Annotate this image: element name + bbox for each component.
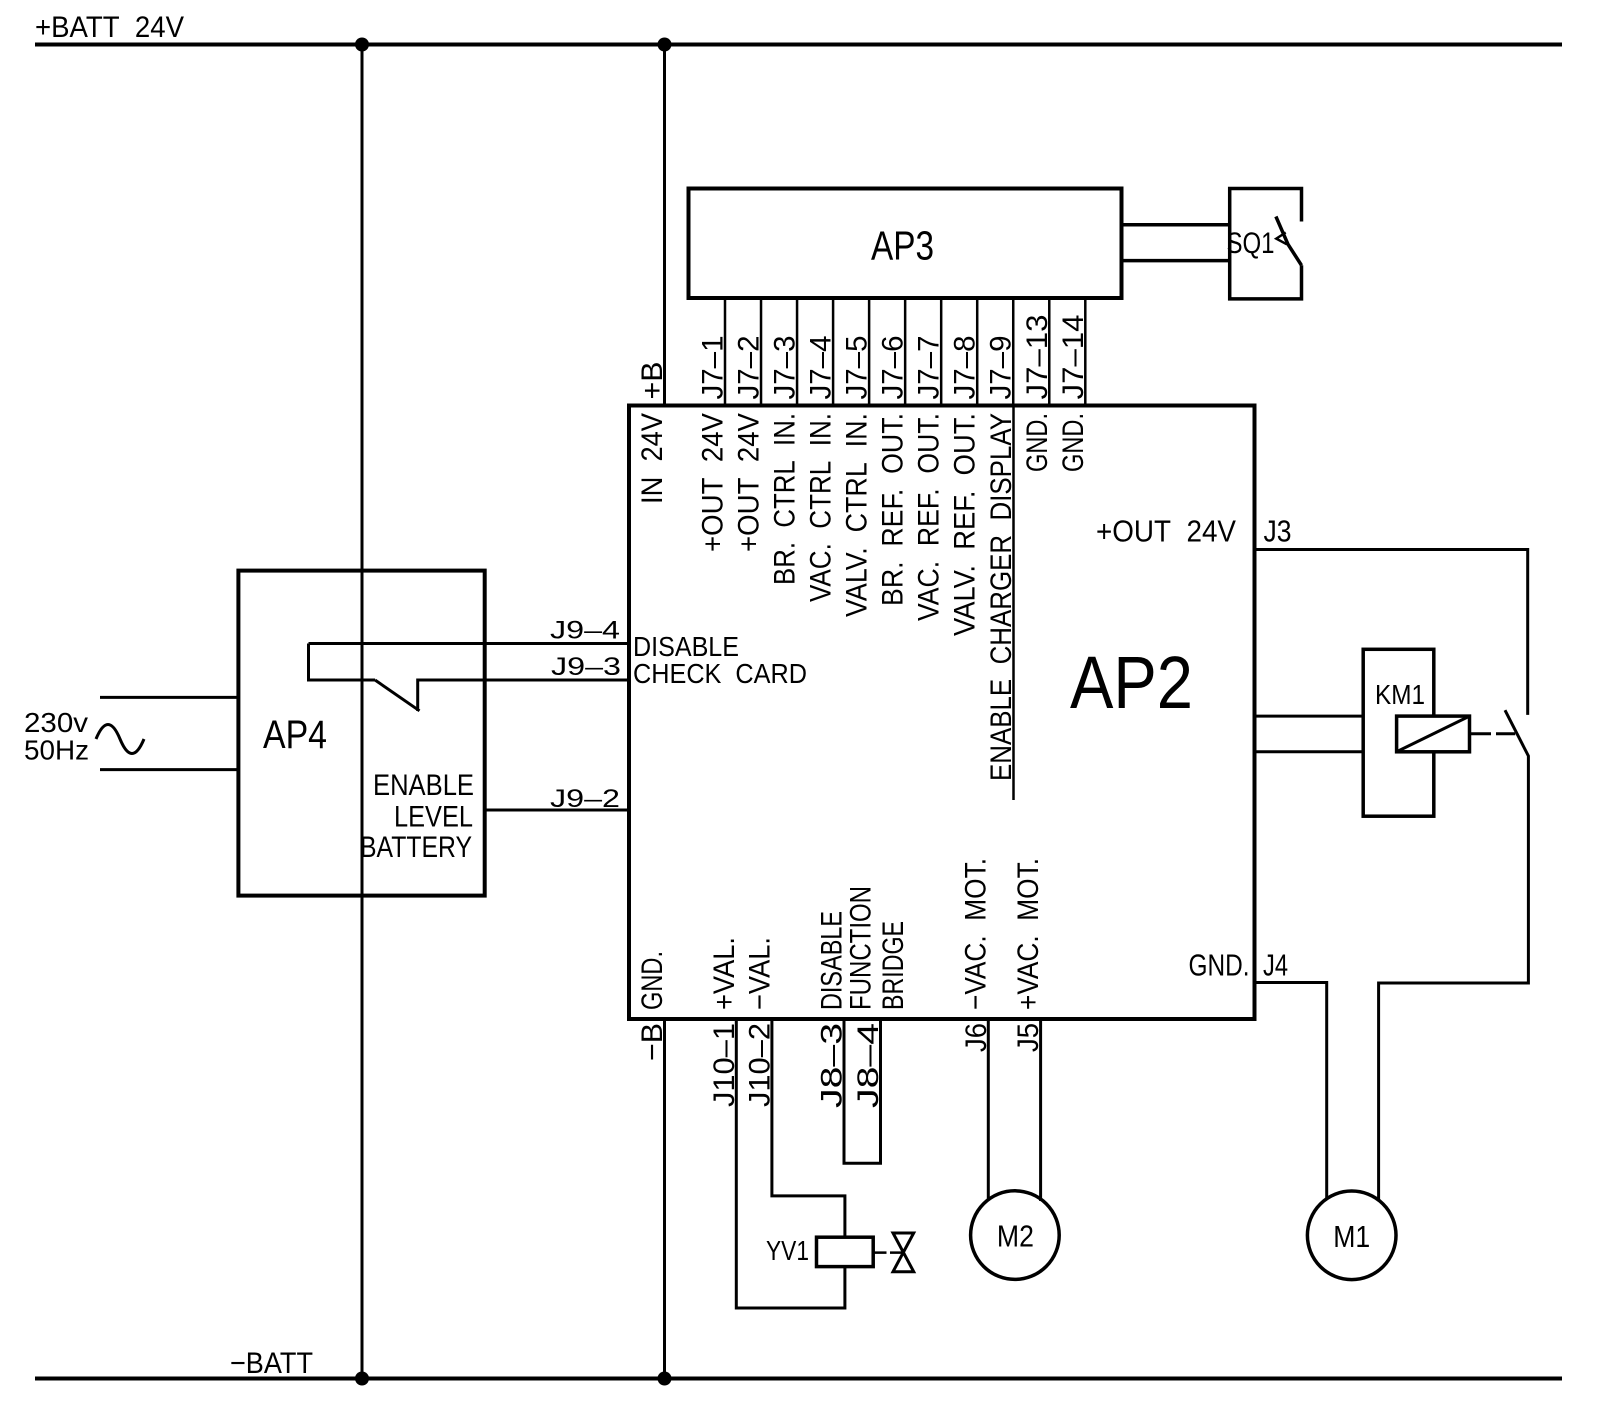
junction: top bus / +B branch [658, 38, 672, 52]
svg-text:J9–3: J9–3 [551, 653, 621, 681]
svg-text:J7–1: J7–1 [697, 336, 730, 400]
wire J9-2 (AP4 to AP2) [485, 809, 629, 812]
svg-text:+BATT 24V: +BATT 24V [35, 11, 184, 44]
svg-text:ENABLE CHARGER DISPLAY: ENABLE CHARGER DISPLAY [985, 413, 1018, 781]
pin separator line 10 (J7 header) [1048, 298, 1051, 406]
wire J5 to M2 [1039, 1019, 1042, 1201]
wire J9-3 (AP4 to AP2) [418, 679, 629, 682]
svg-text:BRIDGE: BRIDGE [877, 921, 910, 1010]
wire: AC input lower [100, 768, 238, 771]
svg-text:J7–7: J7–7 [913, 336, 946, 400]
svg-text:J4: J4 [1263, 948, 1288, 983]
svg-text:50Hz: 50Hz [24, 735, 89, 766]
svg-text:BR. REF. OUT.: BR. REF. OUT. [877, 413, 910, 606]
pin separator line 11 (J7 header) [1084, 298, 1087, 406]
junction: top bus / AP4 branch [355, 38, 369, 52]
internal partition line (charger section) [1012, 406, 1015, 801]
svg-text:J7–9: J7–9 [985, 336, 1018, 400]
mechanical link dash (KM1) [1471, 732, 1491, 735]
wire: AP3 to SQ1 upper [1122, 223, 1230, 227]
svg-text:VAC. REF. OUT.: VAC. REF. OUT. [913, 413, 946, 621]
svg-text:J7–8: J7–8 [949, 336, 982, 400]
wire J10-1 to YV1 (loop under) [736, 1019, 845, 1308]
pin separator line 6 (J7 header) [904, 298, 907, 406]
svg-text:230v: 230v [24, 707, 88, 738]
svg-text:+B: +B [636, 362, 669, 400]
svg-text:M2: M2 [997, 1219, 1034, 1254]
svg-text:BATTERY: BATTERY [360, 831, 472, 864]
pin separator line 2 (J7 header) [760, 298, 763, 406]
contactor KM1 fixed contact bar [1496, 732, 1515, 735]
wire: AP3 to SQ1 lower [1122, 259, 1230, 263]
svg-text:J7–6: J7–6 [877, 336, 910, 400]
wire: battery branch through AP4 (x=362) [361, 45, 364, 1379]
wire: +B drop from top bus to AP2 [663, 45, 666, 406]
svg-text:−B: −B [636, 1023, 669, 1061]
switch inside AP4 (check-card contact) frame [309, 644, 376, 681]
switch SQ1 enclosure [1230, 189, 1302, 299]
wire: AP2 to KM1 coil lower [1255, 750, 1364, 753]
svg-text:CHECK CARD: CHECK CARD [633, 658, 807, 689]
svg-text:J7–14: J7–14 [1057, 315, 1090, 400]
contactor KM1 contact blade [1379, 710, 1529, 1200]
svg-text:ENABLE: ENABLE [373, 769, 474, 802]
valve coil YV1 [817, 1237, 874, 1266]
svg-text:LEVEL: LEVEL [394, 801, 473, 834]
svg-text:−BATT: −BATT [230, 1347, 313, 1380]
svg-text:−VAC. MOT.: −VAC. MOT. [960, 858, 993, 1010]
svg-text:KM1: KM1 [1375, 679, 1425, 710]
switch SQ1 actuator chevron [1276, 233, 1287, 245]
svg-text:J7–13: J7–13 [1021, 315, 1054, 400]
svg-text:SQ1: SQ1 [1227, 227, 1275, 260]
wire: AC input upper [100, 696, 238, 699]
switch SQ1 blade [1276, 217, 1302, 266]
svg-text:J9–2: J9–2 [550, 785, 620, 813]
pin separator line 1 (J7 header) [724, 298, 727, 406]
svg-text:AP3: AP3 [871, 223, 934, 269]
pin separator line 9 (J7 header) [1012, 298, 1015, 406]
svg-text:M1: M1 [1333, 1219, 1370, 1254]
svg-text:GND.: GND. [1189, 948, 1250, 983]
svg-text:VALV. CTRL IN.: VALV. CTRL IN. [841, 413, 874, 617]
svg-text:YV1: YV1 [766, 1235, 809, 1266]
wire J3: AP2 to KM1 contact [1255, 550, 1528, 715]
junction: bottom bus / -B branch [658, 1372, 672, 1386]
pin separator line 4 (J7 header) [832, 298, 835, 406]
svg-text:J7–4: J7–4 [805, 336, 838, 400]
svg-text:BR. CTRL IN.: BR. CTRL IN. [769, 413, 802, 585]
junction: bottom bus / AP4 branch [355, 1372, 369, 1386]
svg-text:VALV. REF. OUT.: VALV. REF. OUT. [949, 413, 982, 636]
contactor KM1 coil [1397, 716, 1470, 752]
svg-text:AP4: AP4 [263, 713, 327, 757]
contactor KM1 coil diagonal [1397, 716, 1470, 752]
svg-text:+VAC. MOT.: +VAC. MOT. [1012, 858, 1045, 1010]
svg-text:+VAL.: +VAL. [708, 937, 741, 1010]
svg-text:+OUT 24V: +OUT 24V [733, 413, 766, 552]
contactor KM1 enclosure [1363, 649, 1434, 816]
svg-text:GND.: GND. [1057, 413, 1090, 472]
svg-text:+OUT 24V: +OUT 24V [1096, 514, 1236, 549]
wire J9-4 (AP4 to AP2) [309, 642, 630, 645]
motor M1 [1307, 1191, 1396, 1280]
wire J4: AP2 to M1 [1255, 983, 1327, 1199]
svg-text:J7–2: J7–2 [733, 336, 766, 400]
wire J6 to M2 [987, 1019, 990, 1200]
wire: YV1 coil to valve symbol [874, 1251, 903, 1254]
jumper loop J8-3/J8-4 [844, 1019, 881, 1163]
svg-text:FUNCTION: FUNCTION [845, 886, 878, 1010]
pin separator line 5 (J7 header) [868, 298, 871, 406]
switch inside AP4 fixed contact tick [416, 679, 419, 712]
wire: -BATT bottom bus [35, 1377, 1562, 1381]
block AP4 (charger) [238, 571, 484, 896]
svg-text:AP2: AP2 [1070, 641, 1193, 724]
svg-text:GND.: GND. [636, 951, 669, 1010]
wire: -B drop from AP2 to bottom bus [663, 1019, 666, 1379]
motor M2 [971, 1191, 1060, 1280]
valve symbol (hourglass) [893, 1233, 914, 1272]
svg-text:GND.: GND. [1021, 413, 1054, 472]
svg-text:VAC. CTRL IN.: VAC. CTRL IN. [805, 413, 838, 602]
svg-text:IN 24V: IN 24V [636, 413, 669, 504]
svg-text:−VAL.: −VAL. [743, 937, 776, 1010]
block AP2 (main control board) [629, 406, 1255, 1020]
block AP3 (display board) [689, 189, 1122, 299]
pin separator line 7 (J7 header) [940, 298, 943, 406]
svg-text:J7–3: J7–3 [769, 336, 802, 400]
svg-text:J7–5: J7–5 [841, 336, 874, 400]
switch inside AP4 blade [375, 680, 420, 711]
pin separator line 8 (J7 header) [976, 298, 979, 406]
svg-text:J9–4: J9–4 [550, 617, 620, 645]
wire: +BATT 24V top bus [35, 43, 1562, 47]
svg-text:+OUT 24V: +OUT 24V [697, 413, 730, 552]
wire J10-2 to YV1 [772, 1019, 845, 1237]
svg-text:J3: J3 [1264, 514, 1292, 549]
wire: AP2 to KM1 coil upper [1255, 715, 1364, 718]
AC source symbol (sine) [96, 725, 144, 754]
pin separator line 3 (J7 header) [796, 298, 799, 406]
